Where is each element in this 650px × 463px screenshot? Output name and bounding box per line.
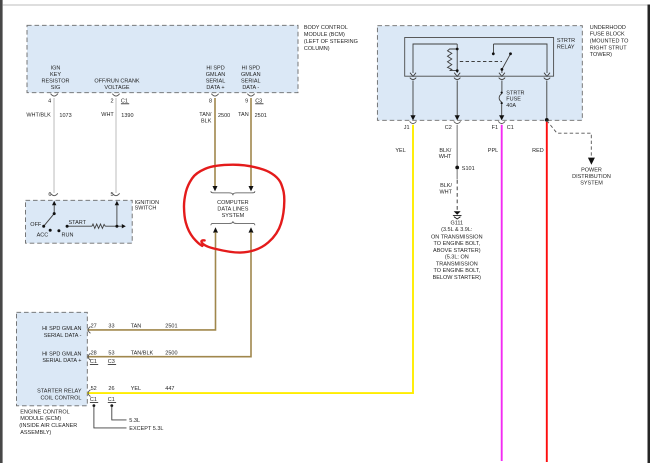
svg-text:WHT: WHT <box>439 189 452 195</box>
svg-text:DATA LINES: DATA LINES <box>217 207 248 213</box>
svg-text:(3.5L & 3.9L:: (3.5L & 3.9L: <box>441 227 473 233</box>
svg-text:YEL: YEL <box>395 148 405 154</box>
svg-text:WHT: WHT <box>439 154 452 160</box>
svg-text:COLUMN): COLUMN) <box>304 46 330 52</box>
svg-text:2501: 2501 <box>255 113 267 119</box>
svg-text:ACC: ACC <box>37 233 49 239</box>
svg-text:TO ENGINE BOLT,: TO ENGINE BOLT, <box>434 241 481 247</box>
svg-text:OFF: OFF <box>30 222 42 228</box>
svg-text:STRTR: STRTR <box>557 38 575 44</box>
svg-text:TRANSMISSION: TRANSMISSION <box>436 261 478 267</box>
svg-text:EXCEPT 5.3L: EXCEPT 5.3L <box>129 426 163 432</box>
svg-text:BELOW STARTER): BELOW STARTER) <box>433 275 482 281</box>
svg-text:SERIAL DATA -: SERIAL DATA - <box>44 333 82 339</box>
svg-text:TOWER): TOWER) <box>590 52 612 58</box>
svg-text:ENGINE CONTROL: ENGINE CONTROL <box>20 410 70 416</box>
svg-text:(LEFT OF STEERING: (LEFT OF STEERING <box>304 39 358 45</box>
svg-text:RELAY: RELAY <box>557 45 575 51</box>
svg-text:HI SPD GMLAN: HI SPD GMLAN <box>42 351 81 357</box>
svg-text:2500: 2500 <box>218 113 230 119</box>
svg-text:STARTER RELAY: STARTER RELAY <box>37 389 82 395</box>
svg-text:(MOUNTED TO: (MOUNTED TO <box>590 39 629 45</box>
svg-text:GMLAN: GMLAN <box>241 72 261 78</box>
svg-text:5.3L: 5.3L <box>129 418 140 424</box>
svg-text:UNDERHOOD: UNDERHOOD <box>590 25 626 31</box>
svg-text:4: 4 <box>48 98 51 104</box>
svg-text:33: 33 <box>108 323 114 329</box>
svg-text:DATA -: DATA - <box>242 85 259 91</box>
svg-text:J1: J1 <box>404 125 410 131</box>
svg-text:TAN/BLK: TAN/BLK <box>131 350 154 356</box>
svg-text:SERIAL: SERIAL <box>241 78 261 84</box>
svg-text:COIL CONTROL: COIL CONTROL <box>40 396 81 402</box>
svg-text:S101: S101 <box>462 166 475 172</box>
svg-text:BODY CONTROL: BODY CONTROL <box>304 25 348 31</box>
svg-text:1073: 1073 <box>59 113 71 119</box>
svg-text:447: 447 <box>165 386 174 392</box>
svg-text:TO ENGINE BOLT,: TO ENGINE BOLT, <box>434 268 481 274</box>
svg-text:53: 53 <box>108 350 114 356</box>
svg-text:FUSE BLOCK: FUSE BLOCK <box>590 32 625 38</box>
svg-text:SYSTEM: SYSTEM <box>580 180 603 186</box>
svg-text:HI SPD: HI SPD <box>242 65 260 71</box>
svg-text:RED: RED <box>532 148 544 154</box>
svg-text:BLK: BLK <box>201 119 212 125</box>
svg-text:IGN: IGN <box>51 65 61 71</box>
svg-text:VOLTAGE: VOLTAGE <box>104 85 129 91</box>
svg-text:40A: 40A <box>506 103 516 109</box>
svg-text:YEL: YEL <box>131 386 141 392</box>
svg-text:COMPUTER: COMPUTER <box>217 200 249 206</box>
svg-text:F1: F1 <box>492 125 498 131</box>
svg-text:PPL: PPL <box>488 148 498 154</box>
svg-text:C1: C1 <box>90 397 97 403</box>
svg-text:DISTRIBUTION: DISTRIBUTION <box>572 174 611 180</box>
svg-text:FUSE: FUSE <box>506 96 521 102</box>
svg-text:TAN: TAN <box>238 112 249 118</box>
svg-text:(INSIDE AIR CLEANER: (INSIDE AIR CLEANER <box>19 423 77 429</box>
svg-text:KEY: KEY <box>50 72 61 78</box>
svg-text:POWER: POWER <box>581 168 602 174</box>
svg-text:BLK/: BLK/ <box>439 148 451 154</box>
svg-text:9: 9 <box>245 98 248 104</box>
svg-text:WHT/BLK: WHT/BLK <box>26 112 51 118</box>
svg-text:1390: 1390 <box>121 113 133 119</box>
svg-text:52: 52 <box>91 386 97 392</box>
svg-text:SERIAL: SERIAL <box>206 78 226 84</box>
svg-text:MODULE (BCM): MODULE (BCM) <box>304 32 345 38</box>
svg-text:OFF/RUN CRANK: OFF/RUN CRANK <box>94 78 140 84</box>
svg-text:C2: C2 <box>445 125 452 131</box>
svg-text:(5.3L: ON: (5.3L: ON <box>445 255 469 261</box>
svg-text:START: START <box>69 220 87 226</box>
svg-text:6: 6 <box>48 192 51 198</box>
svg-text:ABOVE STARTER): ABOVE STARTER) <box>433 248 481 254</box>
svg-text:27: 27 <box>91 323 97 329</box>
svg-text:2500: 2500 <box>165 350 177 356</box>
svg-text:TAN: TAN <box>131 323 142 329</box>
svg-text:C1: C1 <box>108 397 115 403</box>
svg-text:SIG: SIG <box>51 85 60 91</box>
svg-text:SWITCH: SWITCH <box>135 205 157 211</box>
svg-text:WHT: WHT <box>101 112 114 118</box>
svg-text:RESISTOR: RESISTOR <box>41 78 69 84</box>
svg-text:G111: G111 <box>450 220 463 226</box>
svg-text:2501: 2501 <box>165 323 177 329</box>
svg-text:ON TRANSMISSION: ON TRANSMISSION <box>431 234 483 240</box>
svg-text:DATA +: DATA + <box>206 85 224 91</box>
svg-text:ASSEMBLY): ASSEMBLY) <box>20 430 51 436</box>
svg-text:2: 2 <box>110 98 113 104</box>
svg-text:RIGHT STRUT: RIGHT STRUT <box>590 45 628 51</box>
svg-text:26: 26 <box>108 386 114 392</box>
svg-text:HI SPD GMLAN: HI SPD GMLAN <box>42 326 81 332</box>
svg-text:SYSTEM: SYSTEM <box>222 213 245 219</box>
svg-text:8: 8 <box>209 98 212 104</box>
svg-text:SERIAL DATA +: SERIAL DATA + <box>42 358 81 364</box>
svg-text:28: 28 <box>91 350 97 356</box>
svg-text:RUN: RUN <box>62 233 74 239</box>
svg-text:TAN/: TAN/ <box>199 112 212 118</box>
svg-text:BLK/: BLK/ <box>440 183 452 189</box>
svg-text:HI SPD: HI SPD <box>206 65 224 71</box>
svg-text:MODULE (ECM): MODULE (ECM) <box>20 416 61 422</box>
svg-text:GMLAN: GMLAN <box>206 72 226 78</box>
svg-text:C1: C1 <box>507 125 514 131</box>
svg-text:5: 5 <box>111 192 114 198</box>
